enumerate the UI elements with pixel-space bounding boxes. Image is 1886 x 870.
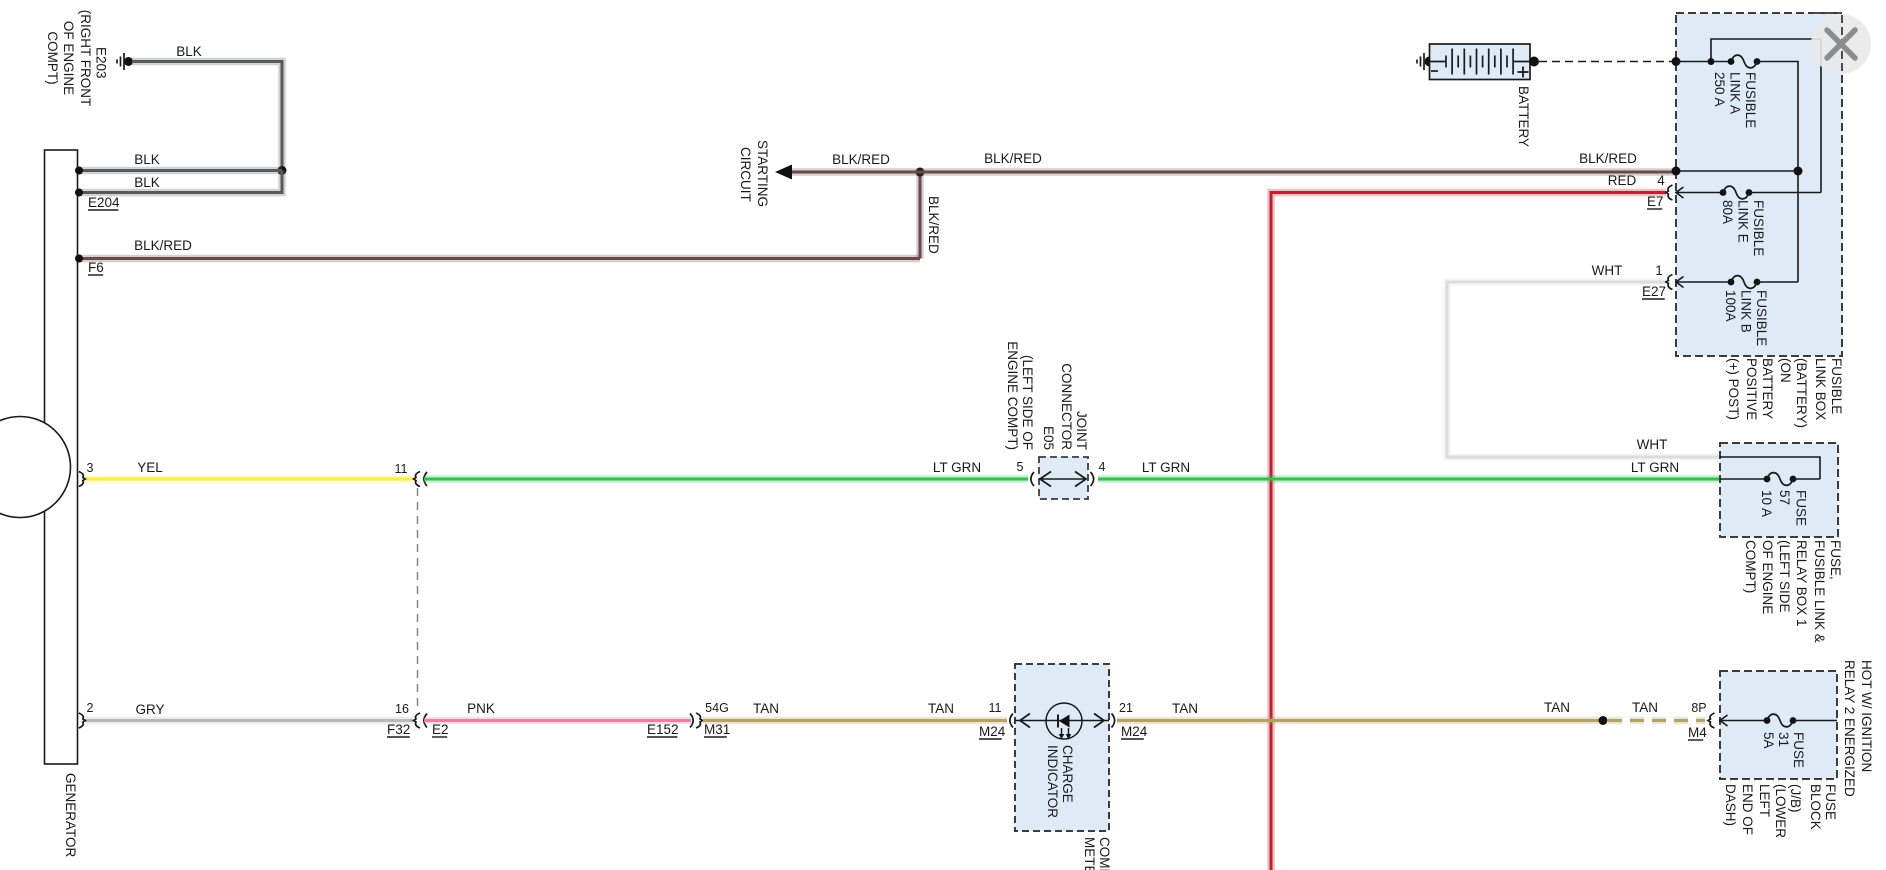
svg-text:TAN: TAN	[1632, 700, 1658, 715]
svg-text:LINK E: LINK E	[1736, 200, 1751, 243]
svg-text:FUSE,: FUSE,	[1828, 540, 1843, 580]
svg-text:PNK: PNK	[467, 701, 495, 716]
svg-text:54G: 54G	[705, 701, 729, 715]
wire battery to fusible link box (dashed)	[1539, 61, 1675, 63]
svg-text:DASH): DASH)	[1723, 784, 1738, 826]
wire PNK	[424, 717, 691, 725]
svg-text:BLK: BLK	[134, 152, 160, 167]
joint connector pin 5	[1031, 472, 1034, 486]
wire YEL generator pin 3	[85, 475, 413, 483]
svg-text:LINK A: LINK A	[1728, 72, 1743, 114]
svg-text:3: 3	[87, 461, 94, 475]
svg-text:5A: 5A	[1761, 732, 1776, 749]
fuse block (J/B) box	[1720, 671, 1837, 779]
node battery feed on box edge	[1672, 57, 1681, 66]
svg-text:F6: F6	[88, 260, 104, 275]
svg-text:E152: E152	[647, 722, 679, 737]
svg-text:BLK/RED: BLK/RED	[134, 238, 192, 253]
svg-text:TAN: TAN	[928, 701, 954, 716]
wire TAN from meter to fuse block	[1117, 717, 1599, 725]
fusible link B 100A	[1676, 281, 1731, 283]
svg-text:FUSIBLE: FUSIBLE	[1751, 200, 1766, 256]
svg-text:(ON: (ON	[1778, 358, 1793, 383]
svg-text:FUSIBLE LINK &: FUSIBLE LINK &	[1812, 540, 1827, 643]
fusible link box (battery)	[1676, 13, 1842, 356]
junction node BLK/RED	[916, 168, 925, 177]
connector M24 pin 21	[1112, 714, 1115, 728]
svg-text:100A: 100A	[1723, 290, 1738, 322]
svg-text:BLOCK: BLOCK	[1808, 784, 1823, 830]
svg-text:END OF: END OF	[1740, 784, 1755, 835]
wire BLK generator pin to junction	[79, 167, 282, 175]
svg-text:31: 31	[1776, 732, 1791, 747]
svg-text:57: 57	[1777, 490, 1792, 505]
wire TAN dashed segment	[1608, 717, 1705, 725]
svg-text:FUSIBLE: FUSIBLE	[1829, 358, 1844, 414]
svg-text:(RIGHT FRONT: (RIGHT FRONT	[78, 10, 93, 107]
svg-text:CHARGE: CHARGE	[1060, 745, 1075, 803]
wire inside box from BLK/RED node	[1676, 170, 1798, 172]
svg-text:WHT: WHT	[1592, 263, 1623, 278]
svg-text:FUSIBLE: FUSIBLE	[1754, 290, 1769, 346]
connector M24 pin 11	[1010, 714, 1013, 728]
wire LT GRN to joint connector	[424, 475, 1028, 483]
svg-text:GENERATOR: GENERATOR	[63, 773, 78, 858]
wire WHT from E27	[1447, 282, 1720, 457]
connector E27 pin 1	[1666, 275, 1673, 290]
svg-text:(+) POST): (+) POST)	[1726, 358, 1741, 420]
svg-text:COMPT): COMPT)	[45, 31, 60, 84]
connector pin 11 F32/E2	[414, 472, 421, 487]
svg-text:BLK: BLK	[134, 175, 160, 190]
svg-text:LEFT: LEFT	[1757, 784, 1772, 817]
svg-text:5: 5	[1017, 460, 1024, 474]
svg-text:21: 21	[1119, 701, 1133, 715]
svg-text:16: 16	[395, 702, 409, 716]
generator component box	[45, 150, 78, 764]
svg-text:OF ENGINE: OF ENGINE	[61, 21, 76, 95]
svg-text:BLK/RED: BLK/RED	[926, 196, 941, 254]
connector dashed tie line	[417, 488, 419, 707]
connector M4 pin 8P	[1708, 713, 1715, 728]
svg-text:CIRCUIT: CIRCUIT	[738, 147, 753, 202]
svg-text:11: 11	[395, 462, 408, 476]
svg-text:COMBINATION: COMBINATION	[1097, 837, 1112, 870]
svg-text:BATTERY: BATTERY	[1760, 358, 1775, 419]
svg-text:(J/B): (J/B)	[1788, 784, 1803, 813]
wire inside to fusible link A	[1676, 61, 1731, 63]
wire TAN to combination meter	[703, 717, 1007, 725]
joint connector pin 4	[1091, 472, 1094, 486]
svg-text:CONNECTOR: CONNECTOR	[1059, 363, 1074, 450]
junction node	[278, 166, 287, 175]
svg-text:BLK/RED: BLK/RED	[984, 151, 1042, 166]
generator pin 2	[79, 713, 86, 728]
wire BLK second generator pin	[79, 171, 282, 193]
svg-text:RELAY 2 ENERGIZED: RELAY 2 ENERGIZED	[1842, 660, 1857, 797]
svg-text:RED: RED	[1608, 173, 1637, 188]
connector pin 16 F32/E2	[414, 713, 421, 728]
svg-text:BLK/RED: BLK/RED	[1579, 151, 1637, 166]
svg-text:80A: 80A	[1720, 200, 1735, 224]
battery ground symbol	[1416, 60, 1418, 64]
svg-text:FUSIBLE: FUSIBLE	[1743, 72, 1758, 128]
svg-text:TAN: TAN	[1544, 700, 1570, 715]
svg-text:E203: E203	[94, 47, 109, 79]
wire LT GRN joint connector to fuse 57	[1098, 475, 1720, 483]
svg-text:250 A: 250 A	[1712, 72, 1727, 107]
charge indicator box	[1015, 664, 1109, 831]
svg-text:TAN: TAN	[1172, 701, 1198, 716]
junction node inside box	[1794, 167, 1803, 176]
svg-text:BLK: BLK	[176, 44, 202, 59]
svg-text:2: 2	[87, 701, 94, 715]
wire from fusible link A down	[1757, 62, 1798, 283]
battery plus mark	[1518, 71, 1529, 73]
svg-text:10 A: 10 A	[1759, 490, 1774, 517]
wire WHT inside fuse box	[1720, 457, 1820, 479]
svg-text:4: 4	[1657, 173, 1665, 188]
svg-text:JOINT: JOINT	[1074, 411, 1089, 450]
svg-text:LINK BOX: LINK BOX	[1813, 358, 1828, 420]
fuse 57 box	[1720, 443, 1838, 537]
svg-text:FUSE: FUSE	[1823, 784, 1838, 820]
svg-text:HOT W/ IGNITION: HOT W/ IGNITION	[1859, 660, 1874, 772]
wire BLK/RED vertical riser	[916, 172, 924, 259]
svg-text:TAN: TAN	[753, 701, 779, 716]
battery B1	[1425, 57, 1435, 67]
generator circle	[0, 417, 71, 518]
fusible link A 250A	[1728, 58, 1735, 65]
fuse 57 10A	[1720, 478, 1767, 480]
svg-text:(LEFT SIDE: (LEFT SIDE	[1777, 540, 1792, 613]
svg-text:E27: E27	[1642, 284, 1666, 299]
junction node TAN	[1599, 716, 1608, 725]
connector E7 pin 4	[1666, 185, 1673, 200]
fusible link E 80A	[1676, 192, 1723, 194]
svg-text:LT GRN: LT GRN	[1631, 460, 1679, 475]
arrow to starting circuit	[775, 165, 792, 180]
svg-text:COMPT): COMPT)	[1743, 540, 1758, 593]
ground E203	[116, 60, 118, 64]
svg-text:BLK/RED: BLK/RED	[832, 152, 890, 167]
svg-text:E05: E05	[1041, 426, 1056, 450]
charge indicator LED	[1046, 703, 1082, 739]
branch wire to fusible link E	[1711, 39, 1821, 193]
wire RED from E7 to meter circuit	[1271, 193, 1666, 870]
svg-text:LINK B: LINK B	[1739, 290, 1754, 333]
svg-text:STARTING: STARTING	[755, 140, 770, 207]
wire BLK from E203 ground	[132, 62, 282, 171]
svg-text:M24: M24	[1121, 724, 1148, 739]
svg-text:GRY: GRY	[135, 702, 164, 717]
svg-text:OF ENGINE: OF ENGINE	[1760, 540, 1775, 614]
connector E152/M31	[690, 714, 693, 728]
battery positive node	[1529, 57, 1539, 67]
svg-text:INDICATOR: INDICATOR	[1045, 745, 1060, 818]
svg-text:M24: M24	[979, 724, 1006, 739]
svg-text:POSITIVE: POSITIVE	[1744, 358, 1759, 420]
svg-text:RELAY BOX 1: RELAY BOX 1	[1794, 540, 1809, 627]
wire BLK/RED to starting circuit	[791, 168, 920, 176]
svg-text:(LEFT SIDE OF: (LEFT SIDE OF	[1020, 355, 1035, 450]
svg-text:(BATTERY): (BATTERY)	[1794, 358, 1809, 428]
joint connector E05 box	[1039, 457, 1088, 499]
meter internal wire	[1015, 720, 1109, 722]
wire BLK/RED to fusible link box	[920, 168, 1676, 176]
svg-text:11: 11	[989, 701, 1002, 715]
svg-text:WHT: WHT	[1637, 437, 1668, 452]
svg-text:LT GRN: LT GRN	[933, 460, 981, 475]
battery minus mark	[1431, 70, 1438, 72]
svg-text:E204: E204	[88, 195, 120, 210]
svg-text:8P: 8P	[1691, 701, 1706, 715]
svg-text:F32: F32	[387, 722, 410, 737]
svg-text:ENGINE COMPT): ENGINE COMPT)	[1005, 341, 1020, 450]
generator pin 3	[79, 472, 86, 487]
wire BLK/RED from generator F6	[79, 255, 920, 263]
close button	[1811, 14, 1871, 74]
svg-text:YEL: YEL	[137, 460, 163, 475]
svg-text:E7: E7	[1647, 194, 1664, 209]
fuse 31 5A	[1720, 720, 1767, 722]
svg-text:4: 4	[1099, 460, 1106, 474]
joint connector internal arrow	[1041, 478, 1085, 480]
svg-text:1: 1	[1655, 263, 1663, 278]
svg-text:FUSE: FUSE	[1791, 732, 1806, 768]
wire GRY generator pin 2	[85, 717, 413, 725]
svg-text:M4: M4	[1688, 725, 1707, 740]
svg-text:FUSE: FUSE	[1794, 490, 1809, 526]
svg-text:METER: METER	[1082, 837, 1097, 870]
svg-text:(LOWER: (LOWER	[1773, 784, 1788, 838]
svg-text:LT GRN: LT GRN	[1142, 460, 1190, 475]
svg-text:BATTERY: BATTERY	[1516, 86, 1531, 147]
